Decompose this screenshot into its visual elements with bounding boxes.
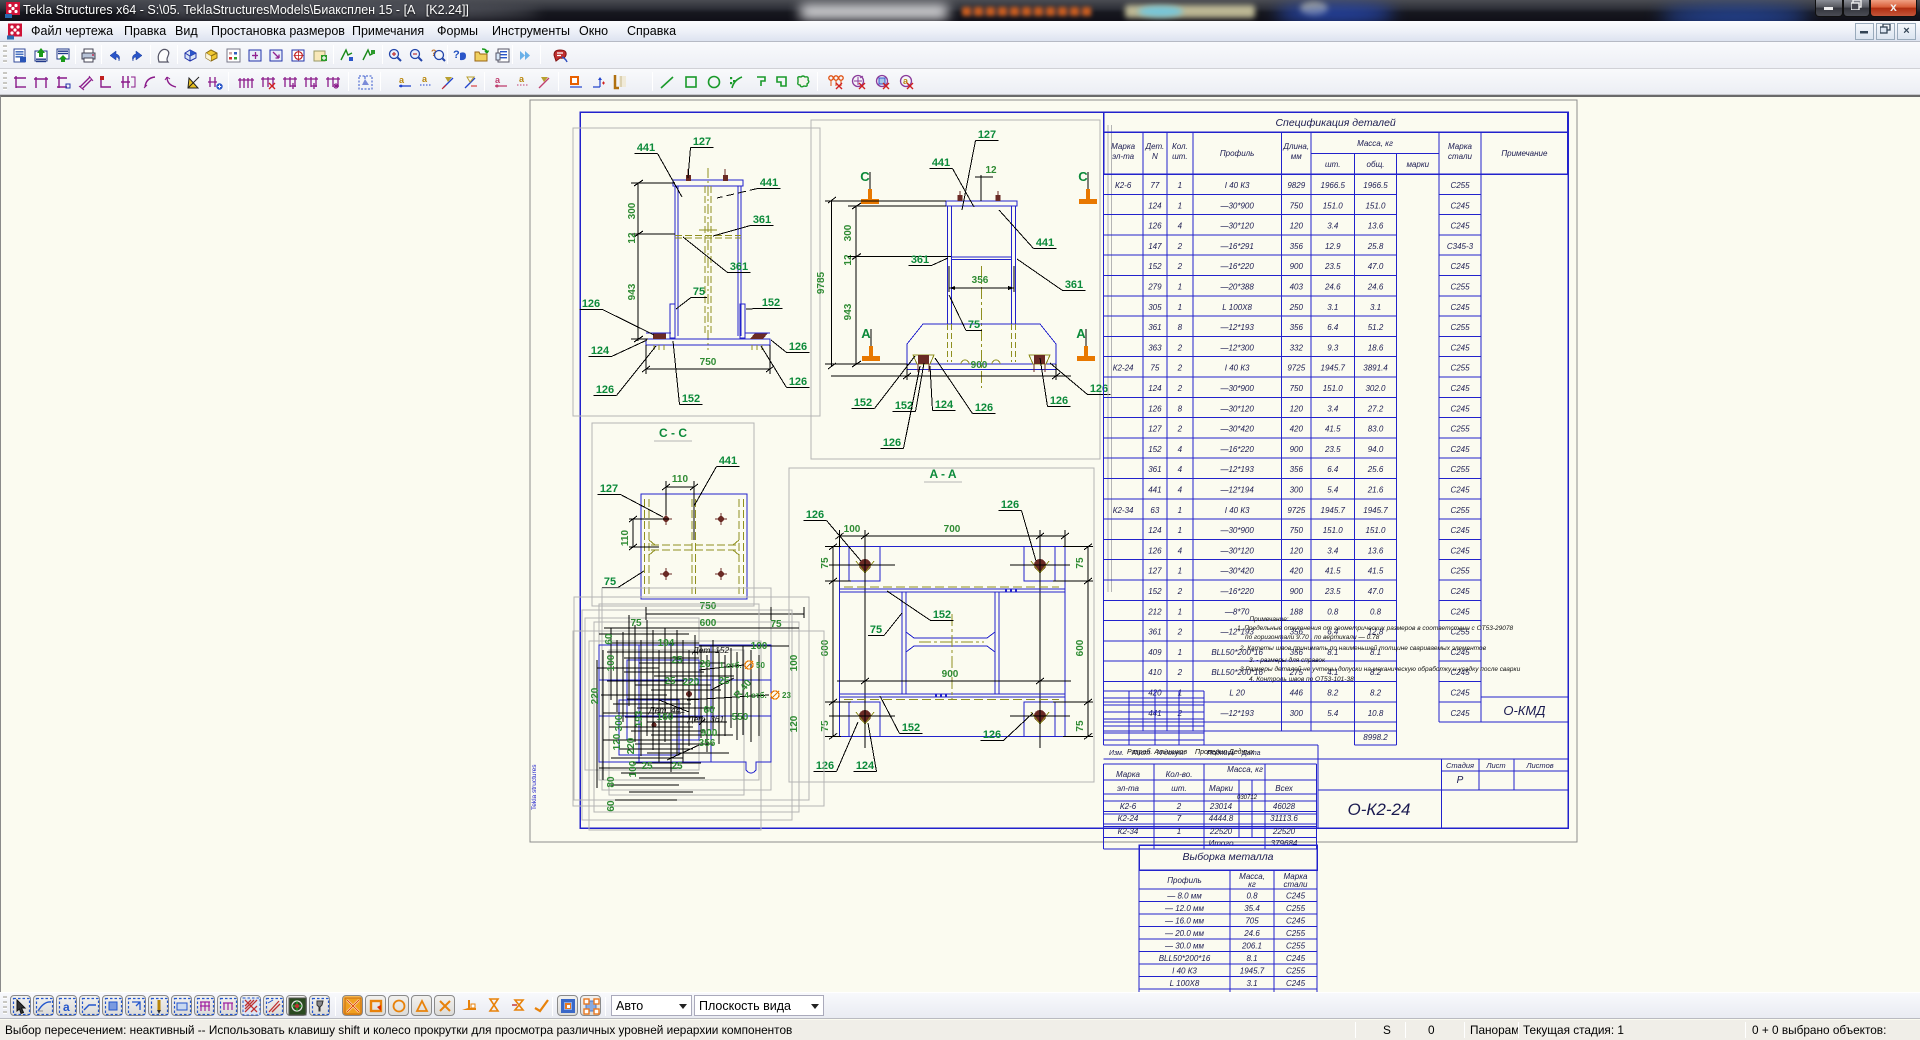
svg-text:Спецификация деталей: Спецификация деталей [1275,117,1395,129]
svg-text:900: 900 [971,360,988,371]
svg-text:356: 356 [699,738,716,749]
svg-text:a: a [399,75,405,85]
status bar [0,1020,1920,1040]
svg-text:3.1: 3.1 [1246,979,1257,988]
column flanges [674,186,676,336]
svg-text:47.0: 47.0 [1368,262,1384,271]
svg-text:—12*193: —12*193 [1219,709,1254,718]
svg-text:1 отб.: 1 отб. [719,661,744,670]
svg-text:750: 750 [1290,526,1304,535]
svg-text:— 20.0 мм: — 20.0 мм [1164,929,1205,938]
svg-text:К2-34: К2-34 [1113,506,1134,515]
svg-text:a: a [519,74,525,84]
svg-text:Марки: Марки [1209,784,1233,793]
svg-text:23014: 23014 [1209,802,1233,811]
svg-text:С245: С245 [1450,546,1470,555]
svg-text:Длина,: Длина, [1282,142,1309,151]
svg-text:О-К2-24: О-К2-24 [1348,800,1411,819]
svg-text:2: 2 [1177,262,1183,271]
svg-text:361: 361 [753,214,771,226]
svg-text:126: 126 [983,729,1001,741]
view 1 column elevation [573,128,820,416]
specification table [1107,125,1109,592]
svg-text:152: 152 [1148,587,1162,596]
svg-text:151.0: 151.0 [1323,201,1344,210]
svg-text:C: C [860,169,870,184]
bottom toolbar [0,992,1920,1019]
svg-text:21.6: 21.6 [1367,486,1384,495]
web hidden lines [704,186,706,336]
svg-text:шт.: шт. [1171,784,1186,793]
title block [1104,690,1205,692]
svg-text:300: 300 [1290,709,1304,718]
svg-text:152: 152 [682,393,700,405]
svg-text:шт.: шт. [1172,152,1187,161]
svg-text:361: 361 [1148,323,1161,332]
svg-text:120: 120 [789,715,800,732]
svg-text:С255: С255 [1286,929,1306,938]
view A-A section [789,468,1094,782]
svg-text:К2-6: К2-6 [1115,181,1132,190]
svg-text:126: 126 [1090,383,1108,395]
svg-text:—30*900: —30*900 [1219,201,1254,210]
svg-text:126: 126 [806,509,824,521]
svg-text:9.3: 9.3 [1327,343,1339,352]
svg-text:С245: С245 [1450,486,1470,495]
svg-text:152: 152 [895,400,913,412]
svg-text:эл-та: эл-та [1112,152,1135,161]
sheet border [530,100,1577,842]
svg-text:151.0: 151.0 [1365,526,1386,535]
svg-text:403: 403 [1290,283,1304,292]
svg-text:Марка: Марка [1448,142,1472,151]
svg-text:152: 152 [933,609,951,621]
plate outline [641,494,747,599]
svg-text:126: 126 [1148,546,1162,555]
svg-text:27.2: 27.2 [1367,404,1384,413]
svg-text:6.4: 6.4 [1327,465,1339,474]
svg-text:124: 124 [935,399,954,411]
svg-text:С255: С255 [1286,942,1306,951]
svg-text:332: 332 [1290,343,1304,352]
svg-text:C: C [1078,169,1088,184]
svg-text:300: 300 [843,224,854,241]
svg-text:Марка: Марка [1116,770,1140,779]
dim 12 top [980,175,982,201]
svg-text:220: 220 [626,737,637,754]
svg-text:1966.5: 1966.5 [1363,181,1388,190]
svg-text:25: 25 [671,655,683,666]
svg-text:3.4: 3.4 [1327,546,1339,555]
svg-text:361: 361 [1065,279,1083,291]
svg-text:47.0: 47.0 [1368,587,1384,596]
view 2 column elevation with sections [811,120,1100,459]
main blue frame [580,112,1568,828]
svg-text:К2-24: К2-24 [1113,364,1134,373]
svg-text:12.9: 12.9 [1325,242,1341,251]
spec rows [1104,193,1397,195]
svg-text:188: 188 [1290,607,1304,616]
svg-text:4: 4 [1178,222,1183,231]
svg-text:110: 110 [620,529,631,546]
svg-text:75: 75 [770,619,782,630]
svg-text:3.1: 3.1 [1327,303,1338,312]
svg-text:2: 2 [1177,587,1183,596]
svg-text:25: 25 [718,676,730,687]
svg-text:80: 80 [606,776,617,788]
svg-text:152: 152 [762,297,780,309]
svg-text:С245: С245 [1450,384,1470,393]
svg-text:1: 1 [1178,648,1182,657]
dim 9785 [831,200,833,366]
svg-text:Стадия: Стадия [1446,761,1474,770]
svg-text:4: 4 [1178,445,1183,454]
svg-text:1945.7: 1945.7 [1240,967,1265,976]
svg-text:550: 550 [732,712,749,723]
toolbar row 2 [0,69,1920,95]
svg-text:Tekla structures: Tekla structures [531,764,538,810]
svg-text:300: 300 [1290,486,1304,495]
svg-text:300: 300 [627,202,638,219]
svg-text:900: 900 [1290,587,1304,596]
svg-text:С245: С245 [1286,979,1306,988]
svg-text:8.2: 8.2 [1327,689,1339,698]
svg-text:2: 2 [1176,802,1182,811]
svg-text:94.0: 94.0 [1368,445,1384,454]
svg-text:126: 126 [975,402,993,414]
svg-text:L 100X8: L 100X8 [1222,303,1252,312]
base plate outline [840,547,1066,737]
svg-text:С255: С255 [1450,567,1470,576]
svg-text:4. Контроль швов по ОТ53-101-3: 4. Контроль швов по ОТ53-101-38 [1249,676,1354,683]
svg-text:705: 705 [1245,917,1259,926]
svg-text:50: 50 [756,661,765,670]
svg-text:С345-3: С345-3 [1447,242,1474,251]
svg-text:a: a [495,75,501,85]
svg-text:206.1: 206.1 [1241,942,1262,951]
svg-text:1. Предельные отклонения от ге: 1. Предельные отклонения от геометрическ… [1237,624,1513,632]
svg-text:9725: 9725 [1287,364,1305,373]
svg-text:1: 1 [1178,181,1182,190]
svg-text:5.4: 5.4 [1327,709,1339,718]
svg-text:31113.6: 31113.6 [1270,814,1298,823]
plan view cluster frames [574,597,809,800]
svg-text:—30*120: —30*120 [1219,546,1254,555]
svg-text:стали: стали [1448,152,1472,161]
svg-text:Кол-во.: Кол-во. [1166,770,1193,779]
svg-text:943: 943 [843,303,854,320]
svg-text:361: 361 [911,254,929,266]
svg-text:25.8: 25.8 [1367,242,1384,251]
menu bar [0,21,1920,42]
svg-text:С245: С245 [1450,526,1470,535]
svg-text:2: 2 [1177,343,1183,352]
stiffeners [670,304,675,338]
totals rows [1142,722,1144,731]
svg-text:— 12.0 мм: — 12.0 мм [1164,904,1205,913]
I-section hidden [644,499,646,594]
svg-text:2: 2 [1177,242,1183,251]
svg-text:1: 1 [1178,607,1182,616]
svg-text:900: 900 [942,669,959,680]
svg-text:4: 4 [1178,486,1183,495]
svg-text:A - A: A - A [929,467,956,481]
svg-text:Р: Р [1457,775,1464,786]
svg-text:3.4: 3.4 [1327,404,1339,413]
svg-text:С245: С245 [1286,917,1306,926]
svg-text:Изм.: Изм. [1109,750,1124,757]
svg-text:—30*120: —30*120 [1219,222,1254,231]
svg-text:9725: 9725 [1287,506,1305,515]
svg-text:1945.7: 1945.7 [1321,364,1346,373]
title bar [0,0,1920,21]
svg-text:—30*900: —30*900 [1219,526,1254,535]
svg-text:124: 124 [1148,526,1162,535]
svg-text:127: 127 [1148,567,1162,576]
svg-text:—16*220: —16*220 [1219,262,1254,271]
svg-text:75: 75 [693,286,705,298]
svg-text:152: 152 [1148,445,1162,454]
svg-text:120: 120 [1290,222,1304,231]
metal table [1139,845,1317,870]
svg-text:250: 250 [1289,303,1304,312]
svg-text:900: 900 [1290,445,1304,454]
svg-text:8.2: 8.2 [1370,689,1382,698]
svg-text:C - C: C - C [659,426,687,440]
svg-text:3.4: 3.4 [1327,222,1339,231]
svg-text:75: 75 [968,319,980,331]
svg-text:1: 1 [1178,689,1182,698]
svg-text:302.0: 302.0 [1365,384,1386,393]
svg-text:— 8.0 мм: — 8.0 мм [1166,892,1202,901]
top plate 127 [673,180,743,186]
svg-text:—30*900: —30*900 [1219,384,1254,393]
svg-text:О-КМД: О-КМД [1503,703,1545,718]
svg-text:С255: С255 [1286,967,1306,976]
svg-text:эл-та: эл-та [1117,784,1140,793]
svg-text:L 100X8: L 100X8 [1170,979,1200,988]
svg-text:75: 75 [604,576,616,588]
svg-text:по горизонтали 9.70: по горизонтали 9.70 , по вертикали — 0.7… [1245,634,1380,641]
svg-text:75: 75 [630,618,642,629]
svg-text:—12*193: —12*193 [1219,465,1254,474]
svg-text:124: 124 [1148,201,1162,210]
svg-text:441: 441 [1036,237,1054,249]
svg-text:18.6: 18.6 [1368,343,1384,352]
svg-text:С255: С255 [1450,323,1470,332]
svg-text:63: 63 [1150,506,1159,515]
svg-text:900: 900 [1290,262,1304,271]
svg-text:363: 363 [1148,343,1162,352]
svg-text:С245: С245 [1450,303,1470,312]
mass table [1104,763,1317,765]
top plate [946,201,1017,206]
svg-text:900: 900 [701,728,718,739]
svg-text:100: 100 [628,760,639,777]
svg-text:I 40 К3: I 40 К3 [1225,181,1250,190]
svg-text:943: 943 [627,283,638,300]
svg-text:77: 77 [1150,181,1159,190]
svg-text:126: 126 [789,376,807,388]
svg-text:—12*194: —12*194 [1219,486,1254,495]
svg-text:379684: 379684 [1271,839,1298,848]
svg-text:1: 1 [1178,201,1182,210]
svg-text:1: 1 [1177,827,1181,836]
right dims [1087,547,1089,737]
svg-text:441: 441 [637,142,655,154]
svg-text:194: 194 [658,638,675,649]
svg-text:Дет. 361: Дет. 361 [687,714,725,724]
svg-text:Кол.: Кол. [1172,142,1188,151]
svg-text:4 отб.: 4 отб. [744,691,769,700]
svg-text:22520: 22520 [1209,827,1233,836]
bolts [687,169,689,180]
svg-text:030712: 030712 [1237,795,1258,801]
svg-text:С245: С245 [1450,262,1470,271]
svg-text:К2-6: К2-6 [1120,802,1137,811]
hidden olive [844,586,1059,588]
svg-text:356: 356 [1290,465,1304,474]
svg-text:24.6: 24.6 [1324,283,1341,292]
svg-text:100: 100 [606,654,617,671]
svg-text:2: 2 [1177,364,1183,373]
svg-text:—30*420: —30*420 [1219,425,1254,434]
svg-text:— 30.0 мм: — 30.0 мм [1164,942,1205,951]
svg-text:Проверил Дедных: Проверил Дедных [1195,748,1255,756]
svg-text:6.4: 6.4 [1327,323,1339,332]
svg-text:700: 700 [944,524,961,535]
svg-text:марки: марки [1406,160,1429,169]
svg-text:147: 147 [1148,242,1162,251]
svg-text:С245: С245 [1450,587,1470,596]
svg-text:356: 356 [1290,242,1304,251]
svg-text:2: 2 [1177,668,1183,677]
svg-text:100: 100 [789,654,800,671]
svg-text:—30*120: —30*120 [1219,404,1254,413]
svg-text:75: 75 [1150,364,1159,373]
svg-text:Итого: Итого [1208,839,1234,848]
O-KMD cell [1481,697,1568,722]
svg-text:75: 75 [820,720,831,732]
svg-text:10.8: 10.8 [1368,709,1384,718]
svg-text:I 40 К3: I 40 К3 [1225,506,1250,515]
svg-text:60: 60 [606,800,617,812]
svg-text:420: 420 [1290,425,1304,434]
svg-text:126: 126 [1050,395,1068,407]
svg-text:600: 600 [820,639,831,656]
dim 300/12/943 [637,183,639,341]
svg-text:750: 750 [700,357,717,368]
svg-text:С255: С255 [1450,181,1470,190]
svg-text:Выборка металла: Выборка металла [1183,851,1274,863]
svg-text:23.5: 23.5 [1324,445,1341,454]
svg-text:9829: 9829 [1287,181,1305,190]
dim 750 [645,345,647,374]
svg-text:Дет. 441: Дет. 441 [648,705,686,715]
svg-text:Лист: Лист [1485,761,1505,770]
svg-text:124: 124 [591,345,610,357]
svg-text:—16*220: —16*220 [1219,445,1254,454]
svg-text:126: 126 [582,298,600,310]
svg-text:A: A [1076,326,1086,341]
svg-text:110: 110 [672,474,689,485]
svg-text:N: N [1152,152,1158,161]
svg-text:356: 356 [972,275,989,286]
left dims [832,547,834,737]
svg-text:23.5: 23.5 [1324,587,1341,596]
svg-text:I 40 К3: I 40 К3 [1225,364,1250,373]
svg-text:С255: С255 [1450,364,1470,373]
svg-text:1945.7: 1945.7 [1321,506,1346,515]
base plate 124 [646,339,770,345]
svg-text:1: 1 [1178,303,1182,312]
svg-text:a: a [422,74,428,84]
svg-text:41.5: 41.5 [1325,567,1341,576]
svg-text:152: 152 [902,722,920,734]
svg-text:51.2: 51.2 [1368,323,1384,332]
svg-text:152: 152 [854,397,872,409]
toolbar row 1 [0,42,1920,69]
svg-text:127: 127 [600,483,618,495]
svg-text:3891.4: 3891.4 [1363,364,1388,373]
svg-text:300: 300 [614,714,625,731]
svg-text:L 20: L 20 [1229,689,1245,698]
svg-text:8: 8 [1178,323,1183,332]
svg-text:—20*388: —20*388 [1219,283,1254,292]
svg-text:С245: С245 [1450,607,1470,616]
svg-text:С255: С255 [1450,465,1470,474]
svg-text:60: 60 [604,633,615,645]
svg-text:441: 441 [760,177,778,189]
svg-text:152: 152 [1148,262,1162,271]
svg-text:24.6: 24.6 [1243,929,1260,938]
corner notches [849,547,880,581]
svg-text:К2-24: К2-24 [1118,814,1139,823]
svg-text:4444.8: 4444.8 [1209,814,1234,823]
svg-text:стали: стали [1284,880,1308,889]
svg-text:1966.5: 1966.5 [1321,181,1346,190]
svg-text:151.0: 151.0 [1365,201,1386,210]
plan dim mesh [604,627,799,629]
svg-text:26: 26 [699,659,711,670]
svg-text:126: 126 [789,341,807,353]
svg-text:75: 75 [820,557,831,569]
svg-text:—16*220: —16*220 [1219,587,1254,596]
svg-text:126: 126 [1148,404,1162,413]
svg-text:193: 193 [634,710,645,727]
svg-text:420: 420 [1290,567,1304,576]
svg-text:126: 126 [883,437,901,449]
svg-text:I 40 К3: I 40 К3 [1172,967,1197,976]
svg-text:46028: 46028 [1273,802,1296,811]
svg-text:2. Катеты швов принимать по на: 2. Катеты швов принимать по наименьшей т… [1239,644,1487,652]
svg-text:кг: кг [1248,880,1256,889]
svg-text:126: 126 [816,760,834,772]
svg-text:—8*70: —8*70 [1224,607,1250,616]
svg-text:120: 120 [1290,404,1304,413]
svg-text:279: 279 [1147,283,1162,292]
svg-text:шт.: шт. [1325,160,1340,169]
svg-text:С245: С245 [1286,892,1306,901]
svg-text:—12*300: —12*300 [1219,343,1254,352]
svg-text:a: a [63,1000,70,1014]
svg-text:?: ? [453,49,460,61]
svg-text:С245: С245 [1450,709,1470,718]
svg-text:126: 126 [1001,499,1019,511]
svg-text:0.8: 0.8 [1370,607,1382,616]
svg-text:441: 441 [932,157,950,169]
svg-text:—16*291: —16*291 [1219,242,1253,251]
